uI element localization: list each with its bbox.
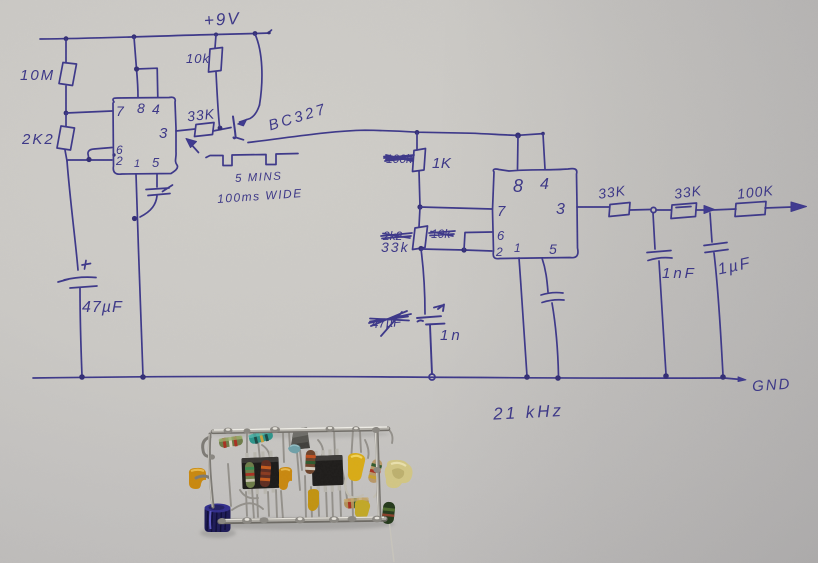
resistor photo right slant: [367, 458, 383, 484]
label 33K R3: [186, 105, 215, 124]
capacitor C3 1n: [417, 305, 445, 375]
board shadow: [200, 430, 395, 538]
svg-text:5 MINS: 5 MINS: [235, 171, 283, 185]
label 5 MINS: [235, 171, 283, 185]
label 1uF: [716, 255, 753, 279]
wire U2 pin5 to C4: [542, 258, 548, 292]
svg-text:8: 8: [137, 100, 145, 116]
svg-text:100K: 100K: [736, 182, 774, 202]
wire IC1 pin3 out: [176, 129, 195, 131]
resistor photo lower: [344, 497, 370, 509]
capacitor C1 47uF polarity plus: [82, 261, 91, 270]
label 33K R7: [673, 182, 703, 202]
label 1nF: [662, 265, 697, 282]
wire rail to 10M: [65, 39, 67, 62]
crossed-out label 10k: [431, 227, 451, 241]
label 21 kHz: [492, 401, 565, 424]
curly light wires right cluster: [345, 456, 379, 498]
U1 pin label 5: [152, 155, 160, 170]
svg-text:1n: 1n: [440, 327, 463, 344]
capacitor photo yellow bright: [348, 453, 365, 481]
svg-text:3: 3: [159, 125, 168, 142]
wire rail to Q1 emitter: [255, 34, 262, 105]
capacitor photo yellow low: [308, 489, 319, 511]
label 10k: [186, 51, 210, 66]
waveform pulse drawing: [206, 154, 298, 166]
svg-text:+9V: +9V: [203, 9, 241, 31]
svg-text:33K: 33K: [597, 182, 627, 202]
resistor R1 10M: [59, 63, 77, 86]
capacitor photo blue electrolytic: [205, 504, 231, 533]
inner thin wires: [228, 429, 393, 519]
label 47uF: [82, 299, 123, 316]
U2 pin label 3: [556, 201, 565, 218]
label GND: [752, 376, 792, 396]
svg-text:33K: 33K: [673, 182, 703, 202]
wire R4 to pin7 node: [419, 171, 420, 207]
node open circle: [651, 207, 656, 212]
wire bus to R4: [416, 132, 418, 150]
wire frame top rail: [213, 429, 388, 432]
wire rail to IC1 pins 8,4: [134, 37, 158, 98]
wire frame right rail: [377, 429, 380, 519]
wire node2 to R8: [712, 209, 736, 210]
U1 pin label 6: [116, 143, 123, 157]
wire to IC1 pin7: [66, 111, 112, 113]
resistor R3 33K: [195, 123, 215, 137]
node R5 bottom: [418, 246, 423, 251]
U2 pin label 8: [513, 176, 523, 196]
solder joints: [209, 426, 382, 524]
svg-text:100ms WIDE: 100ms WIDE: [217, 186, 303, 206]
resistor photo r1: [218, 435, 243, 448]
U2 pin label 2: [495, 245, 503, 259]
crossed-out label 2k2: [382, 229, 403, 243]
resistor R5 33k: [413, 226, 428, 250]
capacitor photo yellow small low: [355, 500, 370, 518]
svg-text:BC327: BC327: [266, 100, 329, 134]
U2 pin label 1: [514, 241, 521, 255]
wire node to C5: [653, 213, 655, 249]
svg-text:5: 5: [152, 155, 160, 170]
label 33k R5: [381, 239, 410, 255]
svg-text:1µF: 1µF: [716, 255, 753, 279]
node pin7 junction: [64, 111, 69, 116]
node pin2 branch: [461, 247, 466, 252]
resistor R2 2K2: [57, 126, 75, 150]
component: long pin wire: [389, 520, 394, 562]
svg-text:8: 8: [513, 176, 523, 196]
wire R3 to base node: [213, 128, 231, 132]
capacitor photo yellow mid: [279, 467, 292, 490]
svg-text:7: 7: [116, 103, 125, 119]
node C3 ground loop: [429, 374, 435, 380]
output arrowhead: [791, 202, 807, 212]
svg-text:6: 6: [497, 228, 505, 243]
svg-text:5: 5: [549, 241, 557, 257]
node ground dots: [79, 373, 726, 381]
svg-text:21 kHz: 21 kHz: [492, 401, 565, 424]
wire rail to 10k: [215, 35, 216, 49]
svg-text:10M: 10M: [20, 67, 55, 84]
label 33K R6: [597, 182, 627, 202]
svg-text:2: 2: [495, 245, 503, 259]
svg-text:2K2: 2K2: [21, 131, 55, 148]
annotation arrow cursor: [186, 139, 199, 153]
node base junction: [218, 126, 223, 131]
svg-text:33K: 33K: [186, 105, 215, 124]
svg-text:47µF: 47µF: [82, 299, 123, 316]
node pin7 IC2: [417, 204, 422, 209]
capacitor C4: [541, 293, 564, 376]
U1 pin label 2: [115, 154, 123, 168]
node: rail junction dots: [64, 31, 271, 41]
crossed-out label 47uF: [371, 314, 403, 331]
U1 pin label 8: [137, 100, 145, 116]
wire node to 2K2: [65, 113, 67, 126]
wire bus to U2 pin8: [517, 136, 520, 170]
svg-text:3: 3: [556, 201, 565, 218]
wire U2 pin1 to ground: [519, 258, 527, 376]
wire 2K2 down: [65, 150, 67, 161]
wire frame left rail: [196, 434, 213, 507]
node pins84: [134, 66, 139, 71]
wire IC1 pin1 to ground: [136, 174, 143, 376]
wire IC1 pin2: [68, 159, 112, 161]
U1 pin label 4: [152, 101, 160, 117]
transistor Q1 BC327: [233, 105, 260, 140]
U2 pin label 7: [497, 203, 506, 220]
capacitor photo pale big: [385, 460, 413, 488]
+9V supply rail: [40, 30, 272, 39]
capacitor C2: [140, 185, 173, 217]
resistor photo v2: [245, 462, 255, 488]
node C2 join: [132, 216, 137, 221]
paper grain overlay: [0, 0, 1, 1]
wire IC1 pin6 hook: [88, 148, 112, 160]
wire U2 pin3 out: [577, 206, 609, 208]
U1 pin label 1: [134, 158, 140, 170]
op-amp U1 555 timer body: [113, 97, 178, 174]
wire R7 to node2: [696, 209, 704, 211]
label 1n: [440, 327, 463, 344]
crossed-out label near R4: [386, 152, 413, 166]
U2 pin label 6: [497, 228, 505, 243]
wire 10M to node: [65, 86, 67, 113]
svg-text:4: 4: [152, 101, 160, 117]
wire R8 to output arrow: [765, 207, 792, 208]
wire to IC2 pin7: [420, 207, 492, 209]
cap photo bluegray: [288, 445, 301, 454]
svg-text:1: 1: [514, 241, 521, 255]
label +9V: [203, 9, 241, 31]
label 100K: [736, 182, 774, 202]
capacitor C5 1nF: [647, 251, 672, 375]
U2 pin label 4: [540, 176, 549, 193]
resistor R9 10k: [209, 48, 223, 73]
label 100ms WIDE: [217, 186, 303, 206]
component dark green: [381, 501, 395, 524]
svg-text:1nF: 1nF: [662, 265, 697, 282]
node arrow junction: [704, 206, 715, 214]
op-amp U2 555 timer body: [493, 169, 578, 259]
svg-text:4: 4: [540, 176, 549, 193]
svg-text:33k: 33k: [381, 239, 410, 255]
resistor R8 100K: [735, 202, 766, 217]
wire node to R5: [419, 207, 420, 227]
label BC327: [266, 100, 329, 134]
node pin2 junction: [86, 153, 115, 162]
transistor photo gray: [290, 427, 310, 450]
capacitor C6 1uF: [704, 243, 728, 376]
label 10M: [20, 67, 55, 84]
resistor R4 1K: [413, 149, 426, 172]
wire node down to C3: [421, 249, 425, 314]
svg-text:1K: 1K: [432, 155, 452, 172]
wire IC1 pin5 to C2: [156, 174, 158, 187]
wire bus to U2 pin4: [543, 134, 545, 169]
ground rail: [33, 376, 746, 381]
resistor photo v3 brown: [305, 450, 316, 474]
capacitor C1 47uF: [58, 277, 97, 288]
U1 pin label 3: [159, 125, 168, 142]
IC package A: [241, 450, 279, 494]
svg-text:7: 7: [497, 203, 506, 220]
wire down to 47uF: [67, 161, 78, 270]
resistor R6 33K: [609, 203, 630, 217]
wire R6 to node: [630, 209, 650, 212]
resistor photo v1: [260, 460, 272, 488]
svg-text:2: 2: [115, 154, 123, 168]
U1 pin label 7: [116, 103, 125, 119]
svg-text:1: 1: [134, 158, 140, 170]
resistor R7 33K: [671, 203, 697, 219]
label 1K: [432, 155, 452, 172]
resistor photo teal: [248, 429, 274, 445]
wire frame bottom rail: [220, 519, 385, 522]
IC package B: [311, 448, 343, 492]
wire node to R7: [656, 209, 671, 211]
svg-text:10k: 10k: [186, 51, 210, 66]
wire 10k to base node: [216, 72, 220, 127]
capacitor photo yellow left: [189, 468, 206, 489]
label 2K2: [21, 131, 55, 148]
node collector bus dots: [415, 130, 545, 138]
wire R5 to IC2 pin2: [421, 249, 492, 251]
wire Q1 collector bus: [248, 130, 543, 142]
wire branch to IC2 pin6: [464, 232, 492, 250]
wire 47uF to ground: [80, 288, 82, 376]
svg-text:GND: GND: [752, 376, 792, 396]
U2 pin label 5: [549, 241, 557, 257]
wire node2 to C6: [710, 213, 712, 242]
